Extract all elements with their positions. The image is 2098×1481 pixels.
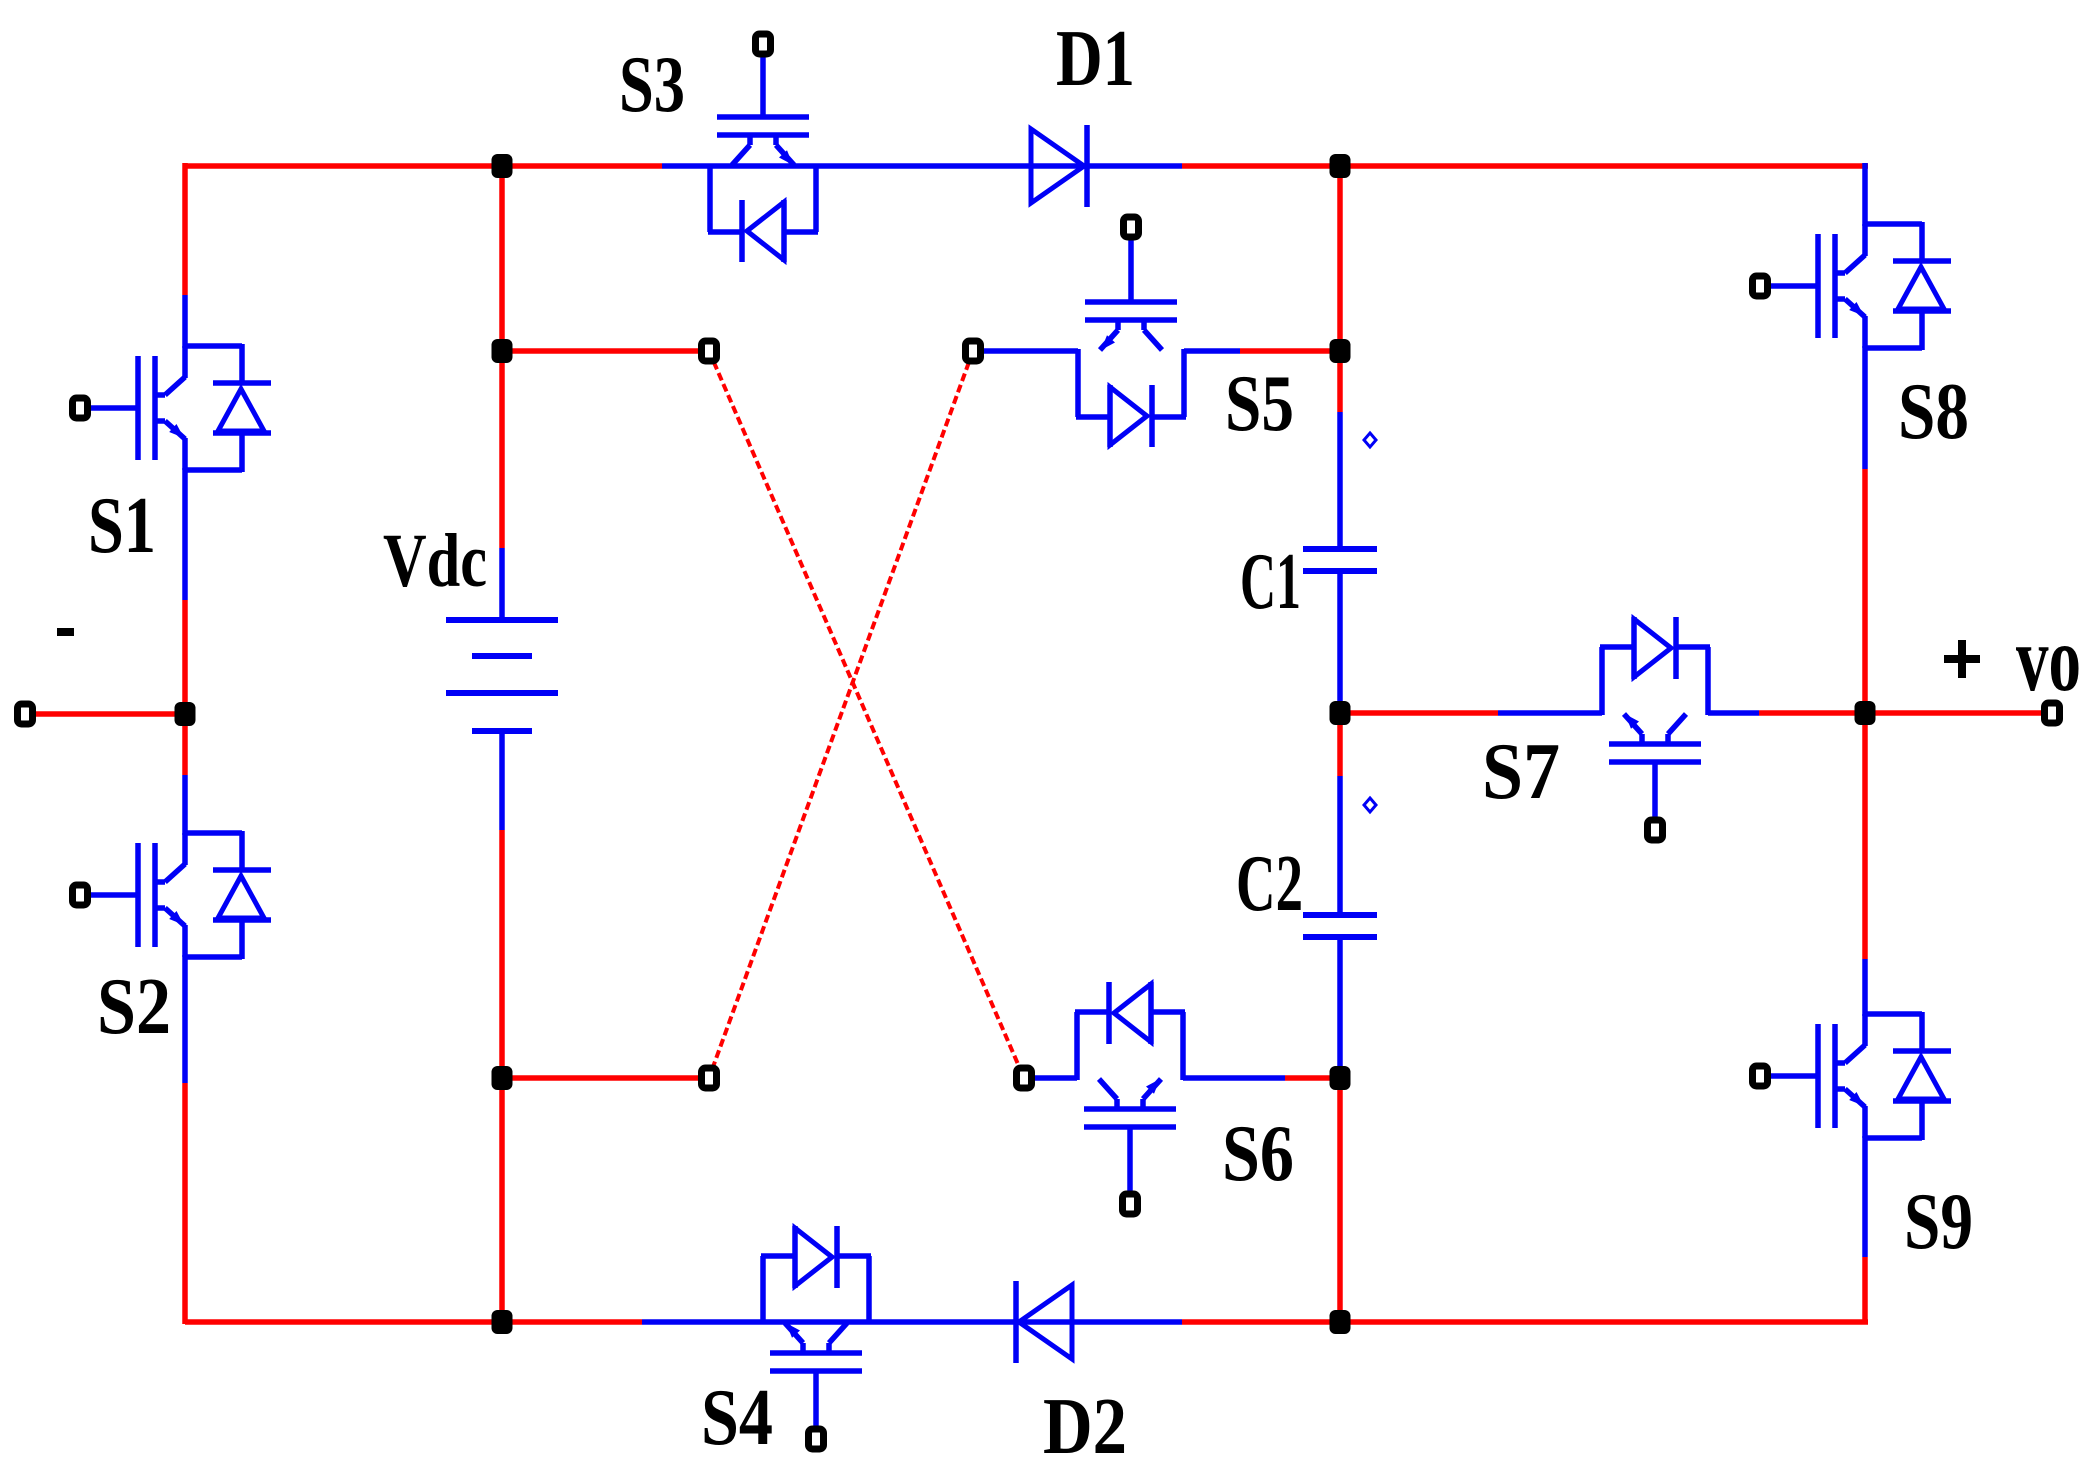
wire C2 bottom lead (blue) — [1337, 936, 1343, 1078]
wire cross dashed B — [709, 351, 973, 1078]
wire mid rail to C2 (red) — [1337, 713, 1343, 776]
svg-text:C1: C1 — [1240, 538, 1301, 626]
node C1-C2 output junction — [1330, 701, 1351, 725]
svg-text:D1: D1 — [1056, 15, 1135, 103]
terminal cross lower-right — [1017, 1068, 1032, 1088]
node bottom-Vdc junction — [492, 1310, 513, 1334]
node upper-cross junction — [492, 339, 513, 363]
node top-Vdc junction — [492, 154, 513, 178]
node lower-cross junction — [492, 1066, 513, 1090]
wire S7 right lead (blue) — [1708, 710, 1759, 716]
diode D2 — [1019, 1285, 1072, 1359]
wire Vdc rail lower (red) — [499, 830, 505, 1324]
wire left terminal lead (red) — [33, 711, 185, 717]
svg-text:C2: C2 — [1236, 840, 1303, 928]
svg-text:Vdc: Vdc — [383, 519, 487, 603]
svg-text:S5: S5 — [1225, 360, 1294, 448]
transistor S8 — [1862, 224, 1868, 256]
node top-mid junction — [1330, 154, 1351, 178]
battery Vdc plate 3 — [446, 690, 558, 696]
wire mid rail to C1 (red) — [1337, 351, 1343, 412]
wire output rail left (red) — [1340, 710, 1498, 716]
wire battery top lead (blue) — [499, 548, 505, 620]
wire S9 collector lead (blue) — [1862, 959, 1868, 1016]
transistor S3 — [717, 114, 809, 120]
svg-text:S2: S2 — [97, 963, 171, 1051]
wire top rail right (red) — [1182, 163, 1868, 169]
transistor S5 — [1085, 299, 1177, 305]
svg-text:S4: S4 — [701, 1374, 773, 1462]
wire bottom rail right (red) — [1182, 1319, 1868, 1325]
node output-right junction — [1855, 701, 1876, 725]
wire S5 right lead (blue) — [1184, 348, 1240, 354]
wire mid rail bottom (red) — [1337, 1078, 1343, 1324]
wire S5 to C1 node (red) — [1240, 348, 1340, 354]
wire S2 emitter lead (blue) — [182, 955, 188, 1083]
wire C1 top lead (blue) — [1337, 412, 1343, 549]
wire top rail middle (blue) — [662, 163, 1182, 169]
wire S5 left lead (blue) — [978, 348, 1078, 354]
wire lower cross rail (red) — [502, 1075, 704, 1081]
wire C2 top lead (blue) — [1337, 776, 1343, 916]
transistor S1 — [182, 346, 188, 378]
wire output rail right (red) — [1759, 710, 2044, 716]
wire S1 collector lead (blue) — [182, 295, 188, 348]
wire battery bottom lead (blue) — [499, 731, 505, 830]
svg-text:S6: S6 — [1222, 1110, 1294, 1198]
battery Vdc plate 4 — [472, 728, 532, 734]
wire S9 emitter lead (blue) — [1862, 1136, 1868, 1257]
label plus sign — [1944, 655, 1980, 663]
wire bottom rail left (red) — [185, 1319, 642, 1325]
terminal left output — [18, 704, 33, 724]
svg-text:D2: D2 — [1043, 1383, 1127, 1471]
capacitor C2 polarity mark — [1364, 798, 1376, 812]
node left terminal junction — [175, 702, 196, 726]
capacitor C2 — [1303, 912, 1377, 918]
wire S2 collector lead (blue) — [182, 775, 188, 835]
transistor S2 — [182, 833, 188, 865]
label minus sign — [57, 628, 74, 636]
wire Vdc rail upper (red) — [499, 166, 505, 548]
transistor S4 — [770, 1368, 862, 1374]
capacitor C1 — [1303, 546, 1377, 552]
transistor S9 — [1862, 1014, 1868, 1046]
wire C1 bottom lead (blue) — [1337, 571, 1343, 713]
svg-text:S1: S1 — [88, 482, 156, 570]
svg-text:S8: S8 — [1898, 368, 1969, 456]
wire mid rail top (red) — [1337, 166, 1343, 351]
node S6-C2 junction — [1330, 1066, 1351, 1090]
diode D1 — [1031, 129, 1084, 203]
wire left rail lower (red) — [182, 1083, 188, 1324]
wire S1 emitter lead (blue) — [182, 468, 188, 600]
wire cross dashed A — [709, 351, 1024, 1078]
battery Vdc plate 1 — [446, 617, 558, 623]
node S5-C1 junction — [1330, 339, 1351, 363]
wire left rail upper (red) — [182, 163, 188, 295]
wire top rail left (red) — [185, 163, 662, 169]
terminal cross upper-left — [702, 341, 717, 361]
wire S6 right lead (blue) — [1183, 1075, 1285, 1081]
wire S7 left lead (blue) — [1498, 710, 1602, 716]
wire bottom rail middle (blue) — [642, 1319, 1182, 1325]
svg-text:S7: S7 — [1482, 728, 1560, 816]
battery Vdc plate 2 — [472, 653, 532, 659]
transistor S7 — [1609, 759, 1701, 765]
node bottom-mid junction — [1330, 1310, 1351, 1334]
terminal cross lower-left — [702, 1068, 717, 1088]
wire S6 left lead (blue) — [1029, 1075, 1077, 1081]
wire S6 to C2 node (red) — [1285, 1075, 1340, 1081]
terminal right vo — [2045, 703, 2060, 723]
wire right rail mid (red) — [1862, 469, 1868, 959]
terminal cross upper-right — [966, 341, 981, 361]
svg-text:S3: S3 — [619, 41, 685, 129]
wire right rail top (blue) — [1862, 163, 1868, 226]
svg-text:S9: S9 — [1904, 1178, 1973, 1266]
wire left rail mid (red) — [182, 600, 188, 775]
wire upper cross rail (red) — [502, 348, 704, 354]
svg-text:vo: vo — [2016, 608, 2081, 711]
wire S8 emitter lead (blue) — [1862, 346, 1868, 469]
capacitor C1 polarity mark — [1364, 433, 1376, 447]
transistor S6 — [1084, 1124, 1176, 1130]
wire right rail bottom (red) — [1862, 1257, 1868, 1324]
